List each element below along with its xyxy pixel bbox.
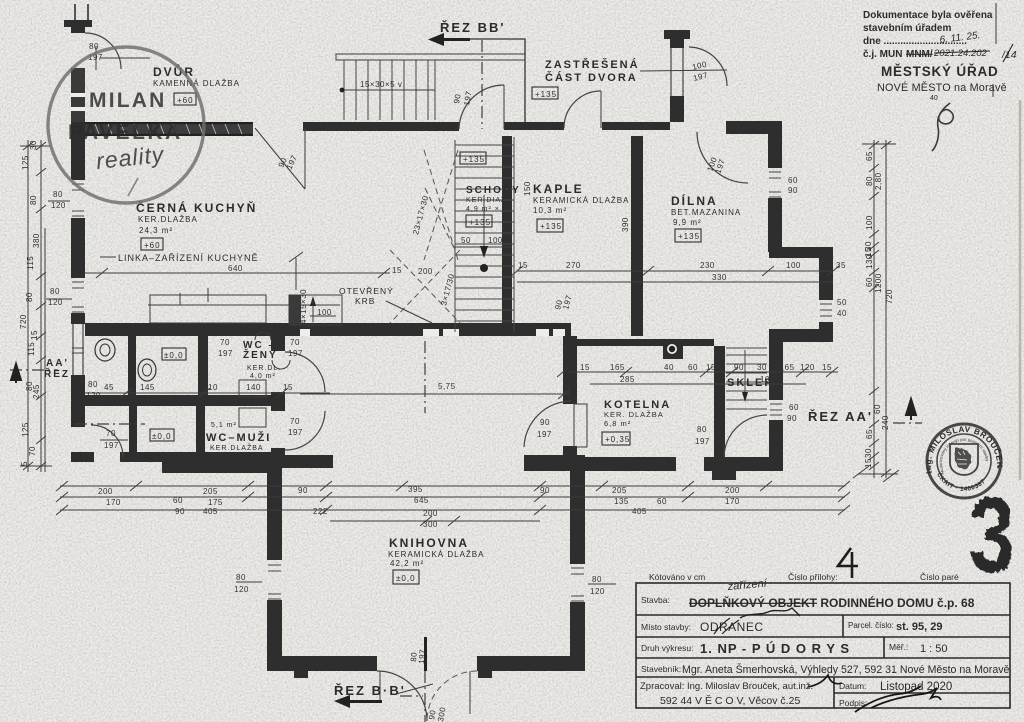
svg-text:80: 80 [53,190,63,199]
svg-text:90: 90 [734,363,744,372]
svg-text:115: 115 [27,342,36,356]
svg-text:405: 405 [203,507,218,516]
svg-text:PAVELKA: PAVELKA [68,121,183,144]
svg-text:+60: +60 [144,241,161,250]
svg-text:60: 60 [873,404,882,414]
svg-text:405: 405 [632,507,647,516]
svg-text:330: 330 [712,273,727,282]
svg-text:2,80: 2,80 [874,172,883,190]
svg-text:120: 120 [800,363,815,372]
svg-text:100: 100 [786,261,801,270]
svg-text:125: 125 [21,155,30,170]
svg-text:10: 10 [208,383,218,392]
svg-text:197: 197 [288,428,303,437]
svg-text:KER.DLAŽBA: KER.DLAŽBA [210,443,264,452]
svg-text:200: 200 [725,486,740,495]
svg-text:2021.24.202: 2021.24.202 [933,48,988,59]
svg-text:±0,0: ±0,0 [164,351,184,360]
svg-text:120: 120 [51,201,66,210]
svg-text:100: 100 [865,215,874,230]
svg-text:9,9 m²: 9,9 m² [673,218,702,227]
svg-text:ŘEZ AA': ŘEZ AA' [808,409,873,424]
svg-text:+135: +135 [540,222,562,231]
svg-text:15: 15 [392,266,402,275]
svg-text:35: 35 [836,261,846,270]
svg-text:MNM/: MNM/ [906,49,933,60]
svg-text:197: 197 [104,441,119,450]
svg-text:Zpracoval: Ing. Miloslav Brouč: Zpracoval: Ing. Miloslav Brouček, aut.in… [640,681,813,692]
svg-text:80: 80 [865,176,874,186]
svg-text:80: 80 [50,287,60,296]
svg-text:223: 223 [571,507,586,516]
svg-text:5: 5 [20,461,29,466]
svg-text:4,9 m² ×: 4,9 m² × [466,206,500,213]
svg-text:KER.DLAŽBA: KER.DLAŽBA [138,215,198,224]
svg-text:1 : 50: 1 : 50 [920,643,948,655]
svg-text:90: 90 [540,418,550,427]
svg-text:70: 70 [290,417,300,426]
svg-text:ZASTŘEŠENÁ: ZASTŘEŠENÁ [545,58,640,71]
svg-text:Kótováno v cm: Kótováno v cm [649,572,705,582]
svg-text:200: 200 [423,509,438,518]
svg-text:BET.MAZANINA: BET.MAZANINA [671,208,741,217]
svg-text:165: 165 [610,363,625,372]
svg-text:197: 197 [537,430,552,439]
svg-text:65: 65 [865,151,874,161]
svg-text:Místo stavby:: Místo stavby: [641,622,691,632]
svg-text:č.j. MUN: č.j. MUN [863,49,902,60]
svg-text:170: 170 [725,497,740,506]
svg-text:Dokumentace byla ověřena: Dokumentace byla ověřena [863,10,993,21]
svg-text:285: 285 [620,375,635,384]
svg-text:205: 205 [612,486,627,495]
svg-text:230: 230 [700,261,715,270]
svg-text:90: 90 [788,186,798,195]
svg-text:300: 300 [423,520,438,529]
svg-text:395: 395 [408,485,423,494]
svg-text:AA': AA' [46,358,69,369]
svg-text:245: 245 [32,384,41,399]
svg-text:LINKA–ZAŘÍZENÍ KUCHYNĚ: LINKA–ZAŘÍZENÍ KUCHYNĚ [118,253,259,263]
svg-text:+135: +135 [535,90,557,99]
svg-text:15: 15 [822,363,832,372]
svg-text:5,1 m²: 5,1 m² [211,422,237,429]
svg-text:197: 197 [695,437,710,446]
svg-text:100: 100 [488,236,503,245]
svg-text:10,3 m²: 10,3 m² [533,206,567,215]
svg-text:40: 40 [930,95,938,102]
svg-text:640: 640 [228,264,243,273]
svg-text:145: 145 [140,383,155,392]
svg-text:200: 200 [418,267,433,276]
svg-text:645: 645 [414,496,429,505]
svg-text:42,2 m²: 42,2 m² [390,559,424,568]
svg-text:60: 60 [788,176,798,185]
svg-text:70: 70 [220,338,230,347]
svg-text:60: 60 [657,497,667,506]
svg-text:65: 65 [865,429,874,439]
svg-text:15: 15 [580,363,590,372]
svg-text:KNIHOVNA: KNIHOVNA [389,536,469,550]
svg-text:Druh výkresu:: Druh výkresu: [641,643,693,653]
svg-text:KAMENNÁ DLAŽBA: KAMENNÁ DLAŽBA [153,79,240,88]
svg-text:Parcel. číslo:: Parcel. číslo: [848,621,894,630]
svg-text:+135: +135 [463,155,485,164]
svg-text:1200: 1200 [874,273,883,293]
svg-text:80: 80 [25,292,34,302]
svg-text:DOPLŇKOVÝ OBJEKT RODINNÉHO DOM: DOPLŇKOVÝ OBJEKT RODINNÉHO DOMU č.p. 68 [689,595,975,610]
svg-text:100: 100 [317,308,332,317]
svg-text:30: 30 [864,448,873,458]
svg-text:125: 125 [21,422,30,437]
svg-text:50: 50 [837,298,847,307]
svg-text:15: 15 [706,363,716,372]
svg-text:80: 80 [236,573,246,582]
svg-text:390: 390 [621,217,630,232]
svg-text:720: 720 [19,314,28,329]
svg-text:40: 40 [837,309,847,318]
svg-text:KER. DLAŽBA: KER. DLAŽBA [604,410,664,419]
svg-text:+135: +135 [678,232,700,241]
svg-text:DÍLNA: DÍLNA [671,193,718,208]
svg-text:80: 80 [592,575,602,584]
svg-text:380: 380 [32,233,41,248]
svg-text:4,0 m²: 4,0 m² [250,373,276,380]
svg-text:24,3 m²: 24,3 m² [139,226,173,235]
svg-text:Listopad 2020: Listopad 2020 [880,681,952,693]
svg-text:Měř.:: Měř.: [889,642,908,652]
svg-text:Číslo přílohy:: Číslo přílohy: [788,572,838,582]
svg-text:70: 70 [28,446,37,456]
svg-text:90: 90 [452,93,463,104]
svg-text:720: 720 [885,289,894,304]
svg-text:MĚSTSKÝ ÚŘAD: MĚSTSKÝ ÚŘAD [881,64,999,79]
svg-text:4×15×30: 4×15×30 [299,289,308,324]
svg-text:135: 135 [614,497,629,506]
svg-text:140: 140 [246,383,261,392]
svg-text:KER.DL.: KER.DL. [247,365,281,372]
svg-text:WC–MUŽI: WC–MUŽI [206,431,271,444]
svg-text:KERAMICKÁ DLAŽBA: KERAMICKÁ DLAŽBA [388,550,484,559]
svg-text:15,65: 15,65 [772,363,795,372]
svg-text:15×30×5 v: 15×30×5 v [360,80,402,89]
svg-text:15: 15 [283,383,293,392]
svg-text:80: 80 [88,380,98,389]
svg-text:197: 197 [288,349,303,358]
svg-text:200: 200 [98,487,113,496]
svg-text:Stavba:: Stavba: [641,595,670,605]
svg-text:205: 205 [203,487,218,496]
svg-text:st. 95, 29: st. 95, 29 [896,621,942,633]
svg-text:ČERNÁ KUCHYŇ: ČERNÁ KUCHYŇ [136,200,257,215]
svg-text:15: 15 [518,261,528,270]
svg-text:Datum:: Datum: [839,681,866,691]
svg-text:90: 90 [540,486,550,495]
svg-text:ČÁST DVORA: ČÁST DVORA [545,71,638,84]
svg-text:120: 120 [48,298,63,307]
svg-text:70: 70 [290,338,300,347]
svg-text:OTEVŘENÝ: OTEVŘENÝ [339,286,394,296]
svg-text:120: 120 [86,391,101,400]
svg-text:Stavebník:: Stavebník: [641,664,681,674]
svg-text:70: 70 [106,429,116,438]
svg-text:45: 45 [104,383,114,392]
svg-text:SCHODY: SCHODY [466,185,521,196]
svg-text:80: 80 [697,425,707,434]
svg-text:1. NP - P Ú D O R Y S: 1. NP - P Ú D O R Y S [700,641,850,656]
svg-text:90: 90 [175,507,185,516]
svg-text:Mgr. Aneta Šmerhovská, Výhledy: Mgr. Aneta Šmerhovská, Výhledy 527, 592 … [682,663,1010,676]
svg-text:ŽENY: ŽENY [243,348,278,361]
svg-text:100: 100 [760,375,775,384]
svg-text:60: 60 [865,277,874,287]
svg-text:KAPLE: KAPLE [533,182,584,196]
svg-text:240: 240 [881,415,890,430]
svg-text:197: 197 [417,649,427,665]
svg-text:stavebním úřadem: stavebním úřadem [863,23,951,34]
svg-text:KRB: KRB [355,296,375,306]
svg-text:30: 30 [29,140,38,150]
svg-text:270: 270 [566,261,581,270]
svg-text:592 44 V Ě C O V, Věcov č.25: 592 44 V Ě C O V, Věcov č.25 [660,694,800,707]
svg-text:120: 120 [590,587,605,596]
svg-text:5,75: 5,75 [438,382,456,391]
svg-text:+0,35: +0,35 [605,435,630,444]
svg-text:60: 60 [789,403,799,412]
svg-text:120: 120 [234,585,249,594]
svg-text:15: 15 [30,330,39,340]
svg-text:+60: +60 [177,96,194,105]
svg-text:3: 3 [969,475,1015,595]
svg-text:MILAN: MILAN [89,89,167,112]
svg-text:NOVÉ MĚSTO na Moravě: NOVÉ MĚSTO na Moravě [877,81,1007,94]
svg-text:40: 40 [664,363,674,372]
svg-text:80: 80 [29,195,38,205]
svg-text:150: 150 [523,181,532,196]
svg-text:KERAMICKÁ DLAŽBA: KERAMICKÁ DLAŽBA [533,196,629,205]
svg-text:90: 90 [787,414,797,423]
svg-text:90: 90 [298,486,308,495]
svg-text:60: 60 [173,496,183,505]
svg-text:170: 170 [106,498,121,507]
svg-text:6,8 m²: 6,8 m² [604,419,631,428]
svg-text:±0,0: ±0,0 [152,432,172,441]
svg-text:197: 197 [218,349,233,358]
svg-text:Číslo paré: Číslo paré [920,572,959,582]
svg-text:±0,0: ±0,0 [396,574,416,583]
svg-text:60: 60 [688,363,698,372]
svg-text:50: 50 [461,236,471,245]
svg-text:30: 30 [757,363,767,372]
svg-text:ODRANEC: ODRANEC [700,620,764,634]
svg-text:130: 130 [865,254,874,269]
svg-text:15: 15 [864,458,873,468]
svg-text:ŘEZ BB': ŘEZ BB' [440,20,505,35]
svg-text:222: 222 [313,507,328,516]
svg-text:+135: +135 [469,218,491,227]
svg-text:ŘEZ: ŘEZ [44,367,70,380]
svg-text:80: 80 [89,42,99,51]
svg-text:KER.DIAŽ: KER.DIAŽ [466,195,506,204]
svg-text:115: 115 [26,256,35,270]
svg-text:ŘEZ B·B': ŘEZ B·B' [334,683,406,698]
svg-text:175: 175 [208,498,223,507]
